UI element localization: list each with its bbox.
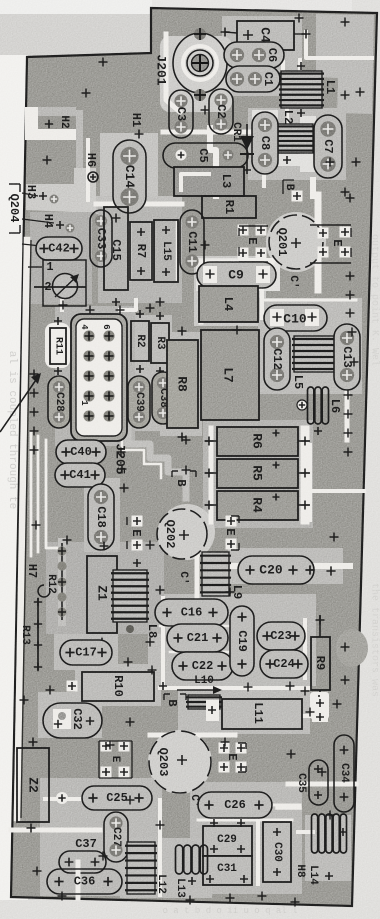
capacitor C16 [155,599,228,626]
hole H3 [22,185,59,204]
hole H6 [84,153,98,182]
inductor L5 [291,336,338,389]
wire segment W19 [37,436,40,552]
inductor L9 [200,552,244,599]
wire segment W15 [308,445,312,520]
capacitor C4 [221,21,311,50]
resistor R6 [205,427,311,456]
capacitor C17 [60,640,112,665]
resistor R1 [202,196,256,218]
wire segment W20 [46,440,62,548]
wire segment W2 [306,32,372,58]
capacitor C14 [113,140,146,213]
pin 1 [28,260,54,274]
capacitor C23 [257,622,305,650]
hole H8 [294,864,306,878]
capacitor C29 [203,819,252,856]
zener Z2 [17,738,49,833]
capacitor C13 [334,324,360,390]
resistor R2 [131,310,149,373]
Q202 collector pad [177,571,189,584]
wire segment W14 [345,390,350,440]
capacitor C24 [260,650,308,678]
capacitor C2 [209,89,233,134]
inductor L10 [177,675,222,709]
wire segment W11 [209,428,214,522]
capacitor C5 [163,143,248,168]
capacitor C33 [90,210,112,267]
inductor L3 [174,167,244,196]
pin 2 [44,280,51,294]
capacitor C19 [230,606,254,676]
wire segment W13 [313,489,364,493]
wire segment W52 [60,300,64,310]
capacitor C38 [152,372,174,424]
wire segment W30 [201,260,272,265]
wire segment W18 [30,432,33,556]
zener Z1 [87,542,117,647]
capacitor C20 [238,556,336,584]
wire segment W7 [262,172,266,186]
capacitor C39 [128,376,150,428]
inductor L12 [125,842,167,894]
wire segment W31 [199,266,204,322]
lead arrow [0,373,41,432]
wire segment W49 [158,800,162,895]
capacitor C6 [224,42,284,68]
capacitor C35 [295,760,328,805]
resistor R12 [45,542,67,622]
wire segment W27 [277,806,300,810]
hole H2 [38,115,76,129]
capacitor C25 [56,786,152,810]
capacitor C3 [169,90,193,138]
capacitor C34 [334,735,354,812]
transistor Q201 [269,215,323,269]
capacitor C28 [48,376,70,428]
capacitor C18 [88,484,114,550]
resistor R3 [151,312,169,375]
wire segment W45 [45,797,80,801]
capacitor C41 [55,463,105,487]
resistor R7 [130,222,152,280]
wire segment W12 [301,430,310,520]
wire segment W44 [288,782,356,787]
inductor L11 [206,697,328,729]
resistor R9 [310,615,368,719]
wire segment W26 [310,180,316,196]
wire segment W28 [128,420,186,498]
capacitor C40 [56,440,106,464]
capacitor C26 [198,792,272,818]
Q202 base pad [172,471,196,487]
resistor R5 [205,459,311,488]
resistor R10 [67,672,168,701]
capacitor C12 [264,328,290,390]
inductor L13 [174,845,208,898]
inductor L6 [297,387,342,435]
transistor Q202 [157,509,207,559]
connector J205 [71,314,128,475]
label Q204 [7,184,21,233]
capacitor C32 [43,703,102,738]
wire segment W39 [281,62,285,74]
capacitor C7 [314,115,342,178]
capacitor C30 [263,822,291,882]
capacitor C15 [104,207,128,306]
capacitor C31 [203,856,252,885]
wire segment W5 [163,130,250,135]
Q203 emitter pads right [219,743,247,773]
hole H4 [22,214,75,233]
capacitor C11 [180,210,204,274]
wire segment W34 [160,625,232,628]
wire segment W36 [303,620,307,678]
connector J201 [154,28,228,101]
inductor L1 [279,62,337,117]
capacitor C21 [167,624,228,652]
Q203 collector pad [188,794,200,807]
wire segment W22 [96,202,182,207]
capacitor C27 [104,812,128,862]
wire segment W51 [120,300,136,310]
trimmer R15 [34,260,86,306]
Q202 emitter pad right [223,516,239,551]
wire segment W8 [298,60,302,76]
wire segment W40 [161,598,165,683]
wire segment W23 [129,224,132,280]
Q203 emitter pads left [99,741,132,779]
wire segment W3 [197,86,201,96]
resistor R11 [45,317,70,375]
Q202 emitter pad [127,516,143,551]
resistor R8 [167,327,198,442]
faint bleed-through text right margin [369,234,380,697]
wire segment W6 [285,108,289,124]
wire segment W47 [195,556,200,600]
Q201 base pad [283,180,303,202]
wire segment W32 [260,290,264,318]
Q203 base pad [164,694,186,707]
wire segment W37 [198,819,292,822]
inductor L15 [154,220,178,282]
capacitor C9 [197,262,276,288]
wire segment W50 [298,830,313,834]
resistor R13 [19,598,45,671]
board inner outline trace [21,240,31,818]
inductor L8 [111,559,159,638]
transistor Q203 [149,731,211,793]
wire segment W24 [151,224,154,280]
wire segment W10 [240,258,318,262]
wire segment W16 [232,563,350,569]
capacitor C22 [172,652,233,680]
hole H5 [22,240,70,255]
wire segment W42 [150,733,235,738]
capacitor C10 [264,305,327,331]
wire segment W33 [262,299,356,302]
wire segment W38 [256,822,260,884]
Q201 emitter pads left [238,225,269,263]
capacitor C42 [36,237,82,260]
faint bleed-through text bottom [162,906,297,916]
resistor R4 [205,491,311,520]
wire segment W1 [166,34,180,112]
wire segment W4 [210,128,216,196]
capacitor C8 [252,112,278,174]
wire segment W41 [160,686,310,690]
hole H1 [129,113,144,139]
wire segment W9 [315,195,322,290]
wire segment W43 [296,714,312,718]
inductor L4 [199,286,258,322]
capacitor C1 [226,66,280,92]
wire segment W17 [17,240,27,818]
wire segment W29 [122,426,161,478]
faint bleed-through text left margin [6,351,18,509]
inductor L7 [201,330,259,420]
wire segment W46 [270,804,300,807]
hole H7 [25,564,50,597]
diode CR1 [230,122,254,174]
wire segment W21 [86,140,90,200]
wire segment W48 [11,828,100,833]
capacitor C36 [47,862,122,898]
capacitor C37 [59,837,106,873]
wire segment W35 [170,651,238,654]
Q201 emitter pads right [310,225,351,263]
inductor L2 [272,110,315,164]
inductor L14 [307,814,347,885]
wire segment W25 [176,222,179,280]
Q201 collector pad [287,275,299,288]
